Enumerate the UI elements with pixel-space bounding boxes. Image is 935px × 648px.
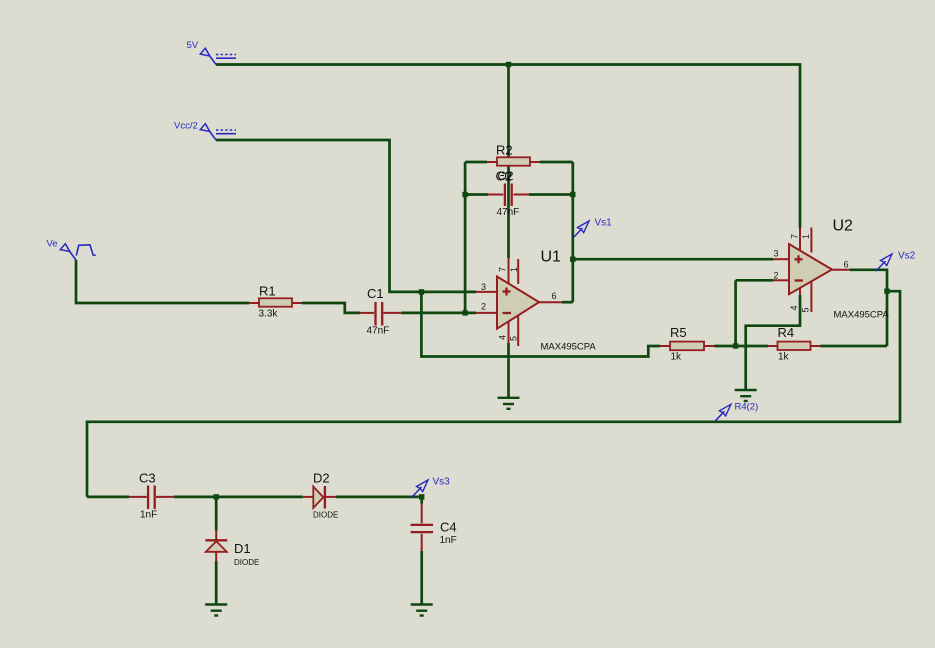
svg-text:5V: 5V (187, 40, 199, 51)
svg-text:3.3k: 3.3k (259, 309, 279, 320)
svg-text:C4: C4 (440, 520, 457, 535)
svg-text:47nF: 47nF (497, 207, 520, 218)
svg-text:1: 1 (801, 234, 811, 239)
svg-text:4: 4 (789, 305, 799, 310)
svg-text:R1: R1 (259, 284, 276, 299)
svg-text:7: 7 (498, 267, 508, 272)
svg-text:DIODE: DIODE (313, 511, 338, 520)
svg-text:C3: C3 (139, 471, 156, 486)
svg-text:R2: R2 (496, 143, 513, 158)
svg-text:MAX495CPA: MAX495CPA (834, 310, 890, 321)
svg-text:6: 6 (844, 260, 849, 270)
svg-text:6: 6 (552, 291, 557, 301)
svg-text:Vcc/2: Vcc/2 (174, 121, 198, 132)
svg-text:Vs1: Vs1 (595, 218, 613, 229)
svg-text:1: 1 (509, 267, 519, 272)
svg-text:Vs2: Vs2 (898, 251, 916, 262)
svg-text:5: 5 (801, 307, 811, 312)
svg-text:D1: D1 (234, 541, 251, 556)
svg-text:1nF: 1nF (440, 535, 457, 546)
svg-text:47nF: 47nF (367, 326, 390, 337)
svg-text:1k: 1k (778, 352, 790, 363)
svg-text:DIODE: DIODE (234, 558, 259, 567)
svg-text:R4(2): R4(2) (735, 402, 759, 413)
svg-text:4: 4 (498, 335, 508, 340)
svg-text:R4: R4 (778, 325, 795, 340)
svg-text:MAX495CPA: MAX495CPA (541, 342, 597, 353)
svg-text:2: 2 (481, 302, 486, 312)
svg-text:R5: R5 (670, 325, 687, 340)
svg-text:D2: D2 (313, 471, 330, 486)
svg-text:2: 2 (774, 271, 779, 281)
svg-text:Vs3: Vs3 (433, 477, 451, 488)
svg-text:3: 3 (481, 282, 486, 292)
svg-text:7: 7 (790, 234, 800, 239)
svg-text:1k: 1k (671, 352, 683, 363)
svg-text:C1: C1 (367, 286, 384, 301)
svg-text:Ve: Ve (47, 239, 58, 250)
svg-text:Θ2: Θ2 (498, 169, 514, 183)
svg-text:5: 5 (509, 336, 519, 341)
svg-text:U2: U2 (833, 218, 854, 235)
svg-text:3: 3 (774, 249, 779, 259)
svg-text:1nF: 1nF (140, 510, 157, 521)
svg-text:U1: U1 (541, 249, 562, 266)
